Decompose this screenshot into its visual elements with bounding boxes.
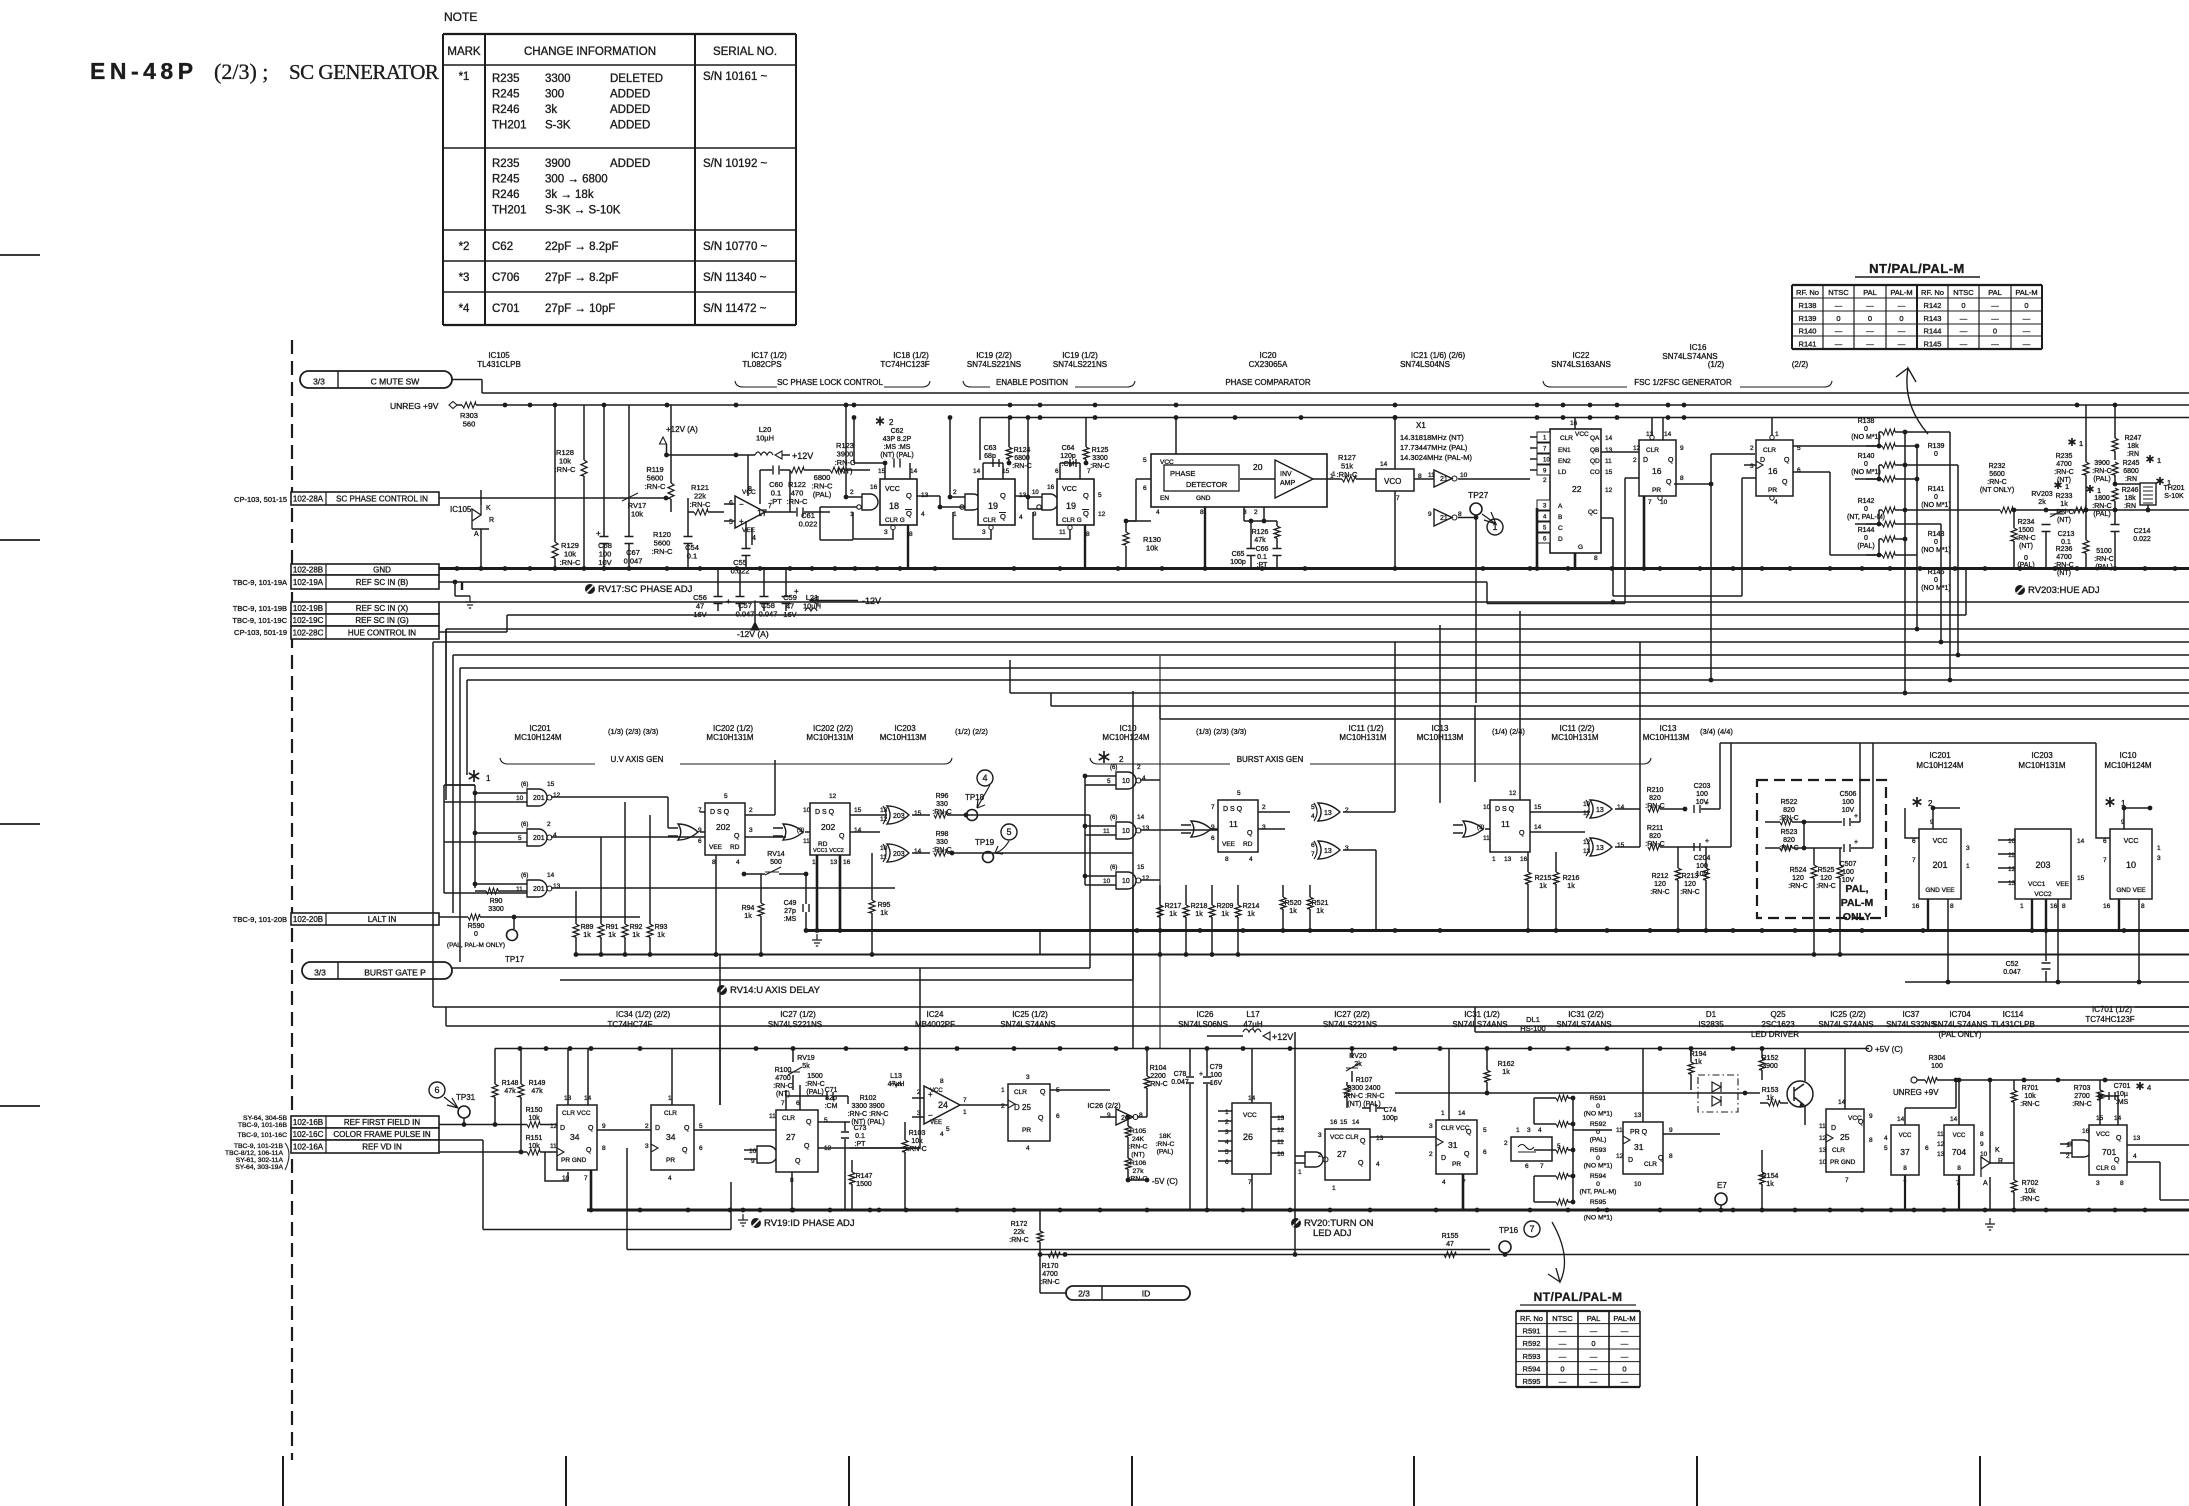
svg-text:2: 2 xyxy=(1429,1151,1433,1158)
svg-text:Q: Q xyxy=(586,1147,592,1154)
svg-text:13: 13 xyxy=(1324,810,1332,817)
svg-text:IC202 (2/2): IC202 (2/2) xyxy=(813,724,853,733)
svg-text:—: — xyxy=(1835,327,1843,336)
wire -12V (A) stub xyxy=(754,601,756,623)
connector 102-20B LALT IN xyxy=(291,913,439,925)
power block IC203 xyxy=(2015,829,2071,899)
svg-text:IS2835: IS2835 xyxy=(1698,1020,1724,1029)
svg-text:*1: *1 xyxy=(459,71,470,83)
svg-text:CLR G: CLR G xyxy=(885,517,905,524)
svg-text:S/N 10770 ~: S/N 10770 ~ xyxy=(703,241,768,253)
svg-text:0: 0 xyxy=(1934,539,1938,546)
svg-text:4700: 4700 xyxy=(2056,461,2072,468)
svg-text:13: 13 xyxy=(1142,825,1150,832)
svg-text:14.31818MHz (NT): 14.31818MHz (NT) xyxy=(1400,433,1464,442)
svg-text:14: 14 xyxy=(1534,824,1542,831)
svg-text:17: 17 xyxy=(757,508,767,518)
svg-text:MC10H131M: MC10H131M xyxy=(706,733,753,742)
svg-text:IC11 (2/2): IC11 (2/2) xyxy=(1560,724,1595,733)
pill 3/3 BURST GATE P xyxy=(302,962,452,979)
svg-text:Q: Q xyxy=(906,491,912,500)
adj label RV14 U AXIS DELAY xyxy=(717,985,727,995)
svg-text:IC201: IC201 xyxy=(529,724,551,733)
svg-text:0: 0 xyxy=(1596,1207,1600,1214)
svg-text:QB: QB xyxy=(1590,447,1599,454)
svg-text:3: 3 xyxy=(1026,1074,1030,1081)
svg-text:S/N 11340 ~: S/N 11340 ~ xyxy=(703,272,767,284)
svg-text:14: 14 xyxy=(1380,461,1388,468)
svg-text:10: 10 xyxy=(1032,490,1039,496)
svg-text:SN74LS163ANS: SN74LS163ANS xyxy=(1551,360,1611,369)
svg-text:34: 34 xyxy=(666,1132,676,1142)
svg-text:820: 820 xyxy=(1783,807,1795,814)
svg-text:0: 0 xyxy=(474,931,478,938)
svg-text:CLR: CLR xyxy=(1560,435,1573,442)
svg-text:R702: R702 xyxy=(2022,1180,2039,1187)
svg-text:MC10H113M: MC10H113M xyxy=(1643,733,1690,742)
svg-text:10: 10 xyxy=(1543,458,1550,464)
svg-text:26: 26 xyxy=(1243,1132,1253,1142)
svg-text:14: 14 xyxy=(1352,1119,1360,1126)
svg-text:R151: R151 xyxy=(526,1135,543,1142)
svg-text:—: — xyxy=(2023,339,2031,348)
svg-text:—: — xyxy=(1621,1352,1629,1361)
svg-text:CLR: CLR xyxy=(1832,1147,1845,1154)
svg-text:R235: R235 xyxy=(2056,453,2073,460)
svg-text::PT: :PT xyxy=(855,1141,867,1148)
svg-text:SN74LS06NS: SN74LS06NS xyxy=(1178,1020,1228,1029)
svg-text:−: − xyxy=(739,500,744,509)
svg-text:R595: R595 xyxy=(1590,1199,1606,1206)
svg-text:R92: R92 xyxy=(630,924,643,931)
svg-text:R103: R103 xyxy=(909,1130,926,1137)
svg-text:5: 5 xyxy=(1225,1149,1229,1156)
svg-text:7: 7 xyxy=(1529,1224,1534,1234)
svg-text:D: D xyxy=(1831,1125,1836,1132)
svg-text:8: 8 xyxy=(2062,903,2066,910)
wire burst gate line 968 xyxy=(452,967,1090,969)
svg-text:8: 8 xyxy=(1680,475,1684,482)
svg-text:C706: C706 xyxy=(492,272,520,284)
svg-text:(NO M*1): (NO M*1) xyxy=(1921,502,1951,509)
wire line 980 xyxy=(560,979,1133,981)
svg-text:(PAL, PAL-M ONLY): (PAL, PAL-M ONLY) xyxy=(447,942,505,949)
svg-text:CHANGE INFORMATION: CHANGE INFORMATION xyxy=(524,46,656,58)
svg-text:(PAL): (PAL) xyxy=(2095,564,2112,571)
svg-text:—: — xyxy=(1866,301,1874,310)
svg-text:IC26: IC26 xyxy=(1197,1010,1214,1019)
svg-text:L17: L17 xyxy=(1246,1010,1260,1019)
svg-text:—: — xyxy=(1960,327,1968,336)
svg-text:Q: Q xyxy=(804,1143,810,1150)
svg-text:LD: LD xyxy=(1558,469,1567,476)
svg-text:LED ADJ: LED ADJ xyxy=(1313,1228,1352,1239)
svg-text:R232: R232 xyxy=(1989,463,2006,470)
svg-text:VCC1 VCC2: VCC1 VCC2 xyxy=(813,848,844,854)
svg-text:21: 21 xyxy=(1440,476,1448,483)
svg-text:R592: R592 xyxy=(1590,1121,1606,1128)
svg-text:0: 0 xyxy=(1596,1155,1600,1162)
svg-text:R91: R91 xyxy=(606,924,619,931)
svg-text::MS: :MS xyxy=(2116,1099,2129,1106)
box IC37 xyxy=(1891,1125,1919,1175)
svg-text:SC PHASE CONTROL IN: SC PHASE CONTROL IN xyxy=(336,495,428,504)
svg-text:10: 10 xyxy=(1122,778,1130,785)
svg-text:16: 16 xyxy=(1047,484,1055,491)
delay line DL1 xyxy=(1511,1137,1552,1161)
svg-text:RV19: RV19 xyxy=(797,1055,814,1062)
svg-text:—: — xyxy=(1898,339,1906,348)
svg-text:Q: Q xyxy=(588,1125,594,1132)
svg-text:AMP: AMP xyxy=(1280,480,1296,487)
svg-text:SC GENERATOR: SC GENERATOR xyxy=(289,60,439,84)
svg-text:NTSC: NTSC xyxy=(1953,288,1974,297)
svg-text:3: 3 xyxy=(1527,1127,1531,1134)
gate IC19a xyxy=(965,494,981,510)
svg-text:R143: R143 xyxy=(1928,531,1945,538)
inverter IC21a xyxy=(1434,470,1452,487)
svg-text::RN: :RN xyxy=(2127,451,2139,458)
svg-text:1: 1 xyxy=(2097,486,2101,495)
svg-text:R209: R209 xyxy=(1217,903,1234,910)
svg-text:22pF → 8.2pF: 22pF → 8.2pF xyxy=(545,241,619,253)
svg-text:16: 16 xyxy=(2082,1128,2090,1135)
wire bottom line C y1254.5 xyxy=(1040,1254,2189,1256)
wire fanout y668 xyxy=(459,668,461,962)
svg-text:1: 1 xyxy=(1775,431,1779,438)
svg-text:VEE: VEE xyxy=(2056,881,2070,888)
svg-text:1: 1 xyxy=(1332,471,1336,478)
svg-text:14: 14 xyxy=(1605,435,1613,442)
svg-text:120p: 120p xyxy=(1060,453,1076,460)
svg-text:RV19:ID PHASE ADJ: RV19:ID PHASE ADJ xyxy=(764,1218,855,1229)
svg-text:2: 2 xyxy=(1543,477,1547,484)
svg-text:120: 120 xyxy=(1654,881,1666,888)
svg-text:C506: C506 xyxy=(1840,791,1857,798)
svg-text:16: 16 xyxy=(1520,856,1528,863)
svg-text:11: 11 xyxy=(1616,1127,1623,1134)
svg-text:1k: 1k xyxy=(608,932,616,939)
svg-text:Q: Q xyxy=(2114,1157,2120,1164)
svg-text:C66: C66 xyxy=(1256,546,1269,553)
svg-text:1k: 1k xyxy=(1502,1069,1510,1076)
svg-text:+12V: +12V xyxy=(792,451,813,461)
svg-text:SN74LS04NS: SN74LS04NS xyxy=(1400,360,1450,369)
svg-text:5100: 5100 xyxy=(2096,548,2112,555)
svg-text:4: 4 xyxy=(1774,499,1778,506)
svg-text:IC20: IC20 xyxy=(1260,351,1277,360)
svg-text:4: 4 xyxy=(1156,509,1160,516)
svg-text:11: 11 xyxy=(803,838,810,845)
svg-text:QA: QA xyxy=(1590,435,1600,442)
svg-text:7: 7 xyxy=(1912,857,1916,864)
svg-text:—: — xyxy=(1991,301,1999,310)
svg-text:R217: R217 xyxy=(1165,903,1182,910)
svg-text:11: 11 xyxy=(2008,852,2015,859)
svg-text:1k: 1k xyxy=(880,910,888,917)
flip-flop IC701 xyxy=(2089,1125,2127,1175)
svg-text:31: 31 xyxy=(1448,1140,1458,1150)
svg-text:R143: R143 xyxy=(1924,314,1942,323)
svg-text:C71: C71 xyxy=(825,1087,838,1094)
svg-text:0: 0 xyxy=(1993,327,1997,336)
svg-text:Q: Q xyxy=(1000,491,1006,500)
svg-text:ONLY: ONLY xyxy=(1843,911,1871,923)
flip-flop IC34 #1 xyxy=(557,1105,597,1170)
svg-text:D: D xyxy=(1760,457,1765,464)
svg-text:Q: Q xyxy=(1040,1089,1046,1096)
svg-text:1: 1 xyxy=(812,859,816,866)
svg-text:Q: Q xyxy=(2116,1135,2122,1142)
svg-text:14.3024MHz (PAL-M): 14.3024MHz (PAL-M) xyxy=(1400,453,1472,462)
svg-text:R245: R245 xyxy=(492,89,520,101)
svg-text:2200: 2200 xyxy=(1150,1073,1166,1080)
svg-text:R149: R149 xyxy=(529,1080,546,1087)
svg-text:(6): (6) xyxy=(1110,865,1117,871)
svg-text:D: D xyxy=(1558,536,1563,543)
svg-text:3: 3 xyxy=(1429,1123,1433,1130)
svg-text:4: 4 xyxy=(1311,813,1315,820)
svg-text:C73: C73 xyxy=(854,1125,867,1132)
svg-text:1k: 1k xyxy=(1195,911,1203,918)
svg-text:SN74LS221NS: SN74LS221NS xyxy=(768,1020,822,1029)
svg-text:6: 6 xyxy=(1055,468,1059,475)
INV AMP triangle xyxy=(1275,460,1313,498)
svg-text:SN74LS74ANS: SN74LS74ANS xyxy=(1932,1020,1987,1029)
svg-text:PHASE: PHASE xyxy=(1170,469,1195,478)
svg-text:10µH: 10µH xyxy=(756,434,774,443)
svg-text:C203: C203 xyxy=(1694,783,1711,790)
svg-text:3: 3 xyxy=(1966,845,1970,852)
svg-text:DL1: DL1 xyxy=(1526,1015,1540,1024)
svg-text:RV14: RV14 xyxy=(767,851,784,858)
svg-text:3300: 3300 xyxy=(1092,455,1108,462)
svg-text:R594: R594 xyxy=(1523,1365,1541,1374)
star *2 mark xyxy=(876,417,884,426)
svg-text:CLR: CLR xyxy=(1014,1089,1027,1096)
svg-text:47k: 47k xyxy=(531,1088,543,1095)
svg-text:ADDED: ADDED xyxy=(610,158,650,170)
svg-text:4: 4 xyxy=(1026,1145,1030,1152)
svg-text:CO: CO xyxy=(1590,469,1600,476)
svg-text:13: 13 xyxy=(880,807,888,814)
svg-text:1k: 1k xyxy=(1247,911,1255,918)
svg-text:(PAL): (PAL) xyxy=(2093,476,2110,483)
wire -12V segment xyxy=(810,600,858,602)
wire +5V rail top xyxy=(980,417,2189,419)
svg-text:13: 13 xyxy=(1634,1112,1642,1119)
xor IC13 #3 xyxy=(1590,800,1612,818)
svg-text:2: 2 xyxy=(1750,445,1754,452)
svg-text:(6): (6) xyxy=(521,822,528,828)
svg-text:—: — xyxy=(1621,1377,1629,1386)
svg-text:R212: R212 xyxy=(1652,873,1669,880)
wire fanout y706 xyxy=(1050,693,1052,706)
svg-text:C701: C701 xyxy=(492,303,520,315)
svg-text:GND: GND xyxy=(1196,495,1211,502)
svg-text:0: 0 xyxy=(1934,577,1938,584)
long vertical wires xyxy=(1132,691,1134,1049)
svg-text:8: 8 xyxy=(1200,509,1204,516)
svg-text:—: — xyxy=(1835,301,1843,310)
svg-text:BURST AXIS GEN: BURST AXIS GEN xyxy=(1237,755,1304,764)
svg-text:3k: 3k xyxy=(545,104,557,116)
svg-text:701: 701 xyxy=(2102,1147,2116,1157)
svg-text:100: 100 xyxy=(1696,791,1708,798)
svg-text:102-16B: 102-16B xyxy=(293,1118,323,1127)
svg-text:10: 10 xyxy=(1103,878,1111,885)
svg-text:1k: 1k xyxy=(1539,883,1547,890)
svg-text:3k → 18k: 3k → 18k xyxy=(545,189,594,201)
svg-text:C701: C701 xyxy=(2114,1083,2131,1090)
svg-text:MC10H113M: MC10H113M xyxy=(880,733,927,742)
svg-text:13: 13 xyxy=(1937,1151,1945,1158)
svg-text:Q: Q xyxy=(1784,457,1790,464)
svg-text:TBC-9, 101-19A: TBC-9, 101-19A xyxy=(233,578,287,587)
resistor R90 3300 xyxy=(475,890,486,892)
svg-text:8: 8 xyxy=(1957,1165,1961,1172)
svg-text:R235: R235 xyxy=(492,158,520,170)
svg-text:14: 14 xyxy=(2077,838,2085,845)
svg-text:R233: R233 xyxy=(2056,493,2073,500)
gate IC201 a xyxy=(527,789,547,806)
svg-text::RN-C: :RN-C xyxy=(1650,889,1669,896)
gate IC10 a xyxy=(1116,772,1136,789)
svg-text:K: K xyxy=(486,505,491,512)
svg-text:102-28B: 102-28B xyxy=(293,566,323,575)
svg-text:PHASE COMPARATOR: PHASE COMPARATOR xyxy=(1225,378,1311,387)
flip-flop IC25 #1 xyxy=(1008,1084,1050,1141)
svg-text:(PAL): (PAL) xyxy=(1857,543,1874,550)
svg-text:IC105: IC105 xyxy=(450,505,472,514)
svg-text:EN1: EN1 xyxy=(1558,447,1571,454)
svg-text:0.1: 0.1 xyxy=(1257,554,1267,561)
svg-text:7: 7 xyxy=(963,1097,967,1104)
svg-text::RN-C: :RN-C xyxy=(1156,1141,1175,1148)
gate IC10 c xyxy=(1116,872,1136,889)
svg-text:0: 0 xyxy=(1934,451,1938,458)
svg-text:203: 203 xyxy=(893,851,905,858)
svg-text:R524: R524 xyxy=(1790,867,1807,874)
svg-text:IC203: IC203 xyxy=(894,724,916,733)
svg-text:4700: 4700 xyxy=(775,1075,791,1082)
svg-text:Q: Q xyxy=(682,1147,688,1154)
svg-text::RN-C :RN-C: :RN-C :RN-C xyxy=(848,1111,889,1118)
svg-text:2: 2 xyxy=(1633,457,1637,464)
svg-text:1k: 1k xyxy=(1766,1095,1774,1102)
svg-text:14: 14 xyxy=(1664,431,1672,438)
svg-text:15: 15 xyxy=(2077,875,2085,882)
svg-text:5: 5 xyxy=(1311,804,1315,811)
svg-text:TC74HC123F: TC74HC123F xyxy=(880,360,929,369)
svg-text:GND VEE: GND VEE xyxy=(2116,887,2146,894)
svg-text:RV203: RV203 xyxy=(2031,491,2052,498)
svg-text:R593: R593 xyxy=(1590,1147,1606,1154)
svg-text:2: 2 xyxy=(1137,764,1141,771)
svg-text:(PAL): (PAL) xyxy=(2017,562,2034,569)
op-amp IC17 17 xyxy=(735,496,765,528)
svg-text:VCC: VCC xyxy=(1933,838,1948,845)
svg-text:5: 5 xyxy=(1107,778,1111,785)
svg-text::RN-C: :RN-C xyxy=(645,482,666,491)
IC22 counter box xyxy=(1550,429,1601,553)
svg-text:10k: 10k xyxy=(528,1143,540,1150)
svg-text:SN74LS221NS: SN74LS221NS xyxy=(967,360,1021,369)
svg-text:8: 8 xyxy=(909,531,913,538)
svg-text:C74: C74 xyxy=(1384,1107,1397,1114)
svg-text:3: 3 xyxy=(645,1143,649,1150)
svg-text:—: — xyxy=(1866,327,1874,336)
svg-text:11: 11 xyxy=(1103,828,1110,835)
svg-text:Q: Q xyxy=(1668,457,1674,464)
svg-text:13: 13 xyxy=(1819,1147,1827,1154)
svg-text:S/N 11472 ~: S/N 11472 ~ xyxy=(703,303,767,315)
svg-text:1: 1 xyxy=(486,774,491,783)
wire +5V rail bottom band xyxy=(495,1048,1869,1050)
svg-text::RN-C: :RN-C xyxy=(1816,883,1835,890)
svg-text:0: 0 xyxy=(2024,555,2028,562)
svg-text:SC PHASE LOCK CONTROL: SC PHASE LOCK CONTROL xyxy=(777,378,883,387)
svg-text:TL082CPS: TL082CPS xyxy=(742,360,781,369)
flip-flop IC19 box2 xyxy=(1057,479,1094,525)
svg-text:PAL-M: PAL-M xyxy=(1613,1314,1635,1323)
svg-text:3: 3 xyxy=(1225,1129,1229,1136)
svg-text:15: 15 xyxy=(547,781,555,788)
svg-text:—: — xyxy=(1559,1352,1567,1361)
svg-text:6: 6 xyxy=(1525,1163,1529,1170)
svg-text:300 → 6800: 300 → 6800 xyxy=(545,174,608,186)
svg-text:SY-64, 303-19A: SY-64, 303-19A xyxy=(235,1164,283,1171)
svg-text:—: — xyxy=(1559,1327,1567,1336)
svg-text:14: 14 xyxy=(1897,1116,1905,1123)
svg-text:MC10H131M: MC10H131M xyxy=(806,733,853,742)
svg-text:10: 10 xyxy=(2008,838,2016,845)
flip-flop IC16 #1 xyxy=(1639,440,1676,496)
svg-text:12: 12 xyxy=(1605,487,1613,494)
svg-text:18K: 18K xyxy=(1159,1133,1172,1140)
svg-text:5: 5 xyxy=(1483,1127,1487,1134)
svg-text:9: 9 xyxy=(1428,511,1432,518)
svg-text:201: 201 xyxy=(1932,860,1947,870)
svg-text:(1/2): (1/2) xyxy=(1708,360,1725,369)
svg-text:VCC: VCC xyxy=(1575,431,1589,438)
svg-text:CLR: CLR xyxy=(1763,447,1776,454)
svg-text:19: 19 xyxy=(1066,501,1076,511)
svg-text:PAL-M: PAL-M xyxy=(1890,288,1912,297)
svg-text:C204: C204 xyxy=(1694,855,1711,862)
svg-text:(NO M*1): (NO M*1) xyxy=(1921,585,1951,592)
svg-text:4: 4 xyxy=(940,1131,944,1138)
svg-text:(2/3) ;: (2/3) ; xyxy=(214,59,268,84)
svg-text:IC701 (1/2): IC701 (1/2) xyxy=(2092,1005,2132,1014)
svg-text:11: 11 xyxy=(880,854,887,861)
svg-text:11: 11 xyxy=(1229,819,1238,829)
svg-text:-5V (C): -5V (C) xyxy=(1152,1177,1178,1186)
svg-text:SN74LS32NS: SN74LS32NS xyxy=(1886,1020,1936,1029)
svg-text:Q: Q xyxy=(1083,509,1089,518)
wire HUE control hook xyxy=(439,631,507,633)
svg-text:1: 1 xyxy=(1492,522,1497,532)
svg-text:2: 2 xyxy=(1225,1119,1229,1126)
svg-text:0: 0 xyxy=(1961,301,1965,310)
flip-flop IC34 #2 xyxy=(651,1105,694,1170)
svg-text:MC10H124M: MC10H124M xyxy=(1916,761,1963,770)
svg-text::MS :MS: :MS :MS xyxy=(884,444,911,451)
NAND gate IC18 input xyxy=(862,494,878,510)
svg-text:7: 7 xyxy=(1845,1177,1849,1184)
svg-text:VCC: VCC xyxy=(2124,838,2139,845)
svg-text:R592: R592 xyxy=(1523,1339,1541,1348)
